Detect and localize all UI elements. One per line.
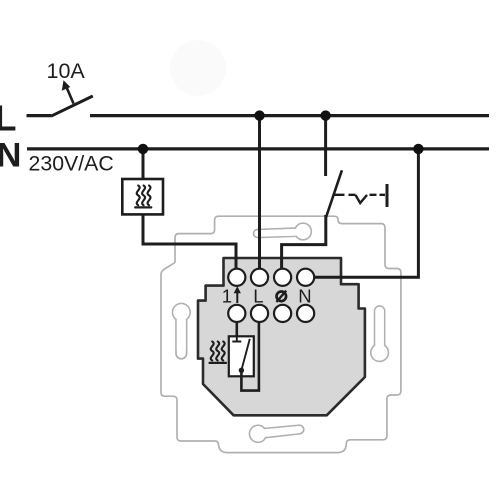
N line xyxy=(27,147,489,150)
label sensor xyxy=(277,292,287,302)
svg-text:230V/AC: 230V/AC xyxy=(29,151,114,175)
svg-text:N: N xyxy=(0,137,21,175)
relay blade xyxy=(241,339,249,370)
junction dot N xyxy=(413,144,423,154)
wire L branch xyxy=(258,116,261,270)
L line xyxy=(27,114,52,117)
wire switch branch lower xyxy=(282,215,326,270)
heater symbol xyxy=(135,186,151,208)
wire heater branch xyxy=(143,149,236,270)
wire switch branch upper xyxy=(324,116,327,176)
insert body xyxy=(198,258,365,415)
terminal circles bottom row xyxy=(228,305,314,322)
breaker arrow xyxy=(66,86,74,104)
svg-text:N: N xyxy=(298,285,311,306)
heater box xyxy=(122,179,163,214)
junction dot L1 xyxy=(254,110,264,120)
terminal circles top row xyxy=(228,269,314,286)
relay fixed contact xyxy=(232,336,241,341)
svg-text:L: L xyxy=(0,98,17,139)
junction dot L2 xyxy=(320,110,330,120)
wire N branch xyxy=(313,149,418,277)
label arrow up xyxy=(236,290,238,303)
junction dot heater xyxy=(138,144,148,154)
svg-text:10A: 10A xyxy=(47,59,86,83)
relay box xyxy=(229,336,254,376)
mounting frame outline xyxy=(161,216,401,452)
svg-text:1: 1 xyxy=(222,285,232,306)
top slot xyxy=(254,223,312,240)
relay exit wire xyxy=(241,320,259,391)
heat symbol in body xyxy=(210,342,227,363)
left keyhole xyxy=(173,304,191,359)
switch blade right xyxy=(326,170,342,218)
svg-text:L: L xyxy=(253,285,263,306)
wire terminal1 bottom to relay xyxy=(236,320,239,336)
faint smudge xyxy=(170,40,226,96)
breaker blade xyxy=(51,96,93,116)
relay pivot dot xyxy=(239,368,244,373)
right keyhole xyxy=(371,306,389,361)
switch linkage dashed xyxy=(333,194,385,196)
bottom slot xyxy=(250,425,304,442)
